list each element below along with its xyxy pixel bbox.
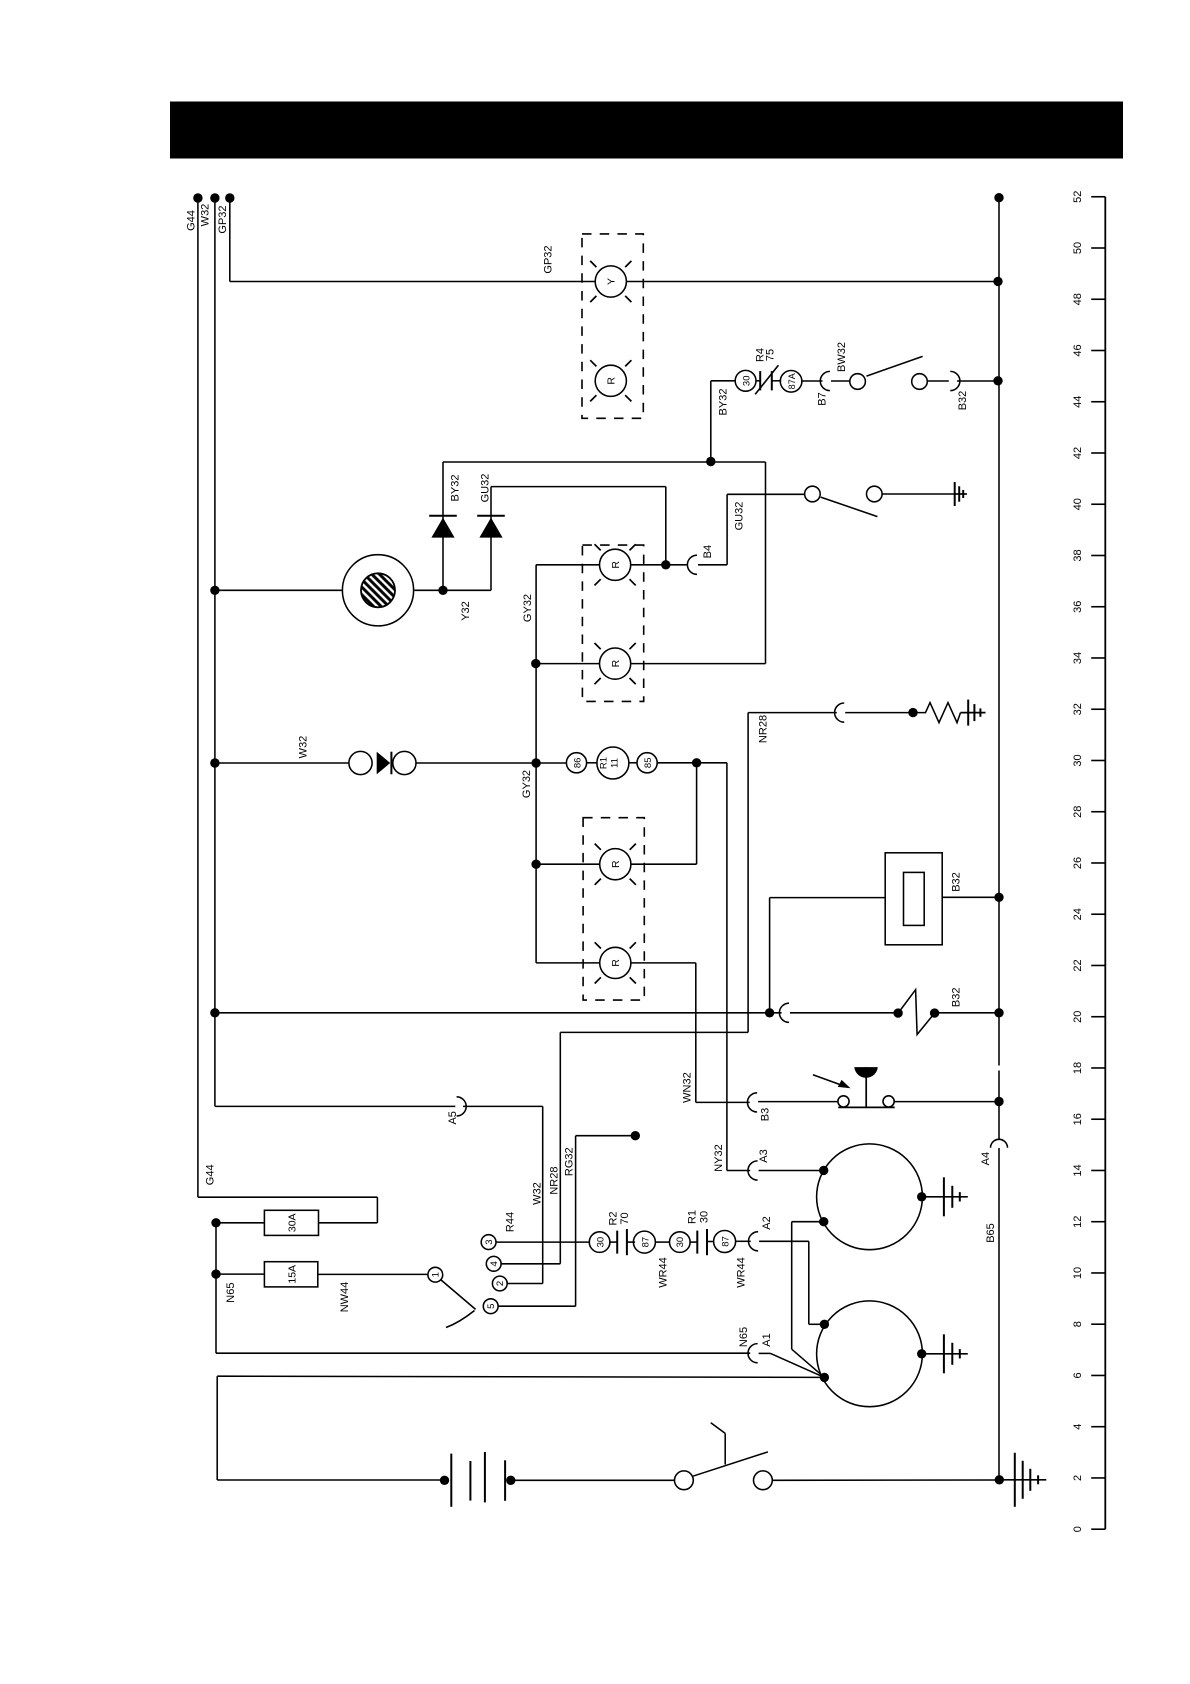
svg-text:NR28: NR28 (549, 1167, 561, 1195)
junction dot W32-horn (210, 586, 219, 595)
wire GU32 riser (726, 494, 728, 565)
svg-text:26: 26 (1072, 857, 1084, 869)
wire term2 to W32 (507, 1283, 543, 1285)
wire GU32 horizontal (491, 486, 666, 488)
wire cluster2 lower row (535, 663, 599, 665)
junction dot bus20 left (210, 1008, 219, 1017)
wire WN32 to B3 (696, 1101, 750, 1103)
svg-text:18: 18 (1072, 1062, 1084, 1074)
connector NR28 arc (835, 703, 845, 722)
svg-text:30: 30 (741, 376, 752, 387)
svg-text:48: 48 (1072, 293, 1084, 305)
switch BW32 throw (912, 374, 928, 390)
wire N65 vertical (215, 1223, 217, 1353)
connector A3 arc (748, 1161, 758, 1180)
svg-text:75: 75 (765, 349, 777, 361)
svg-text:B32: B32 (957, 391, 969, 411)
wire M1 riser diagonal (792, 1349, 825, 1377)
svg-text:R: R (610, 561, 622, 569)
svg-text:85: 85 (643, 758, 654, 769)
indicator lamp R cluster3 bottom (600, 947, 631, 978)
wire GP32 horizontal to lamp Y (230, 281, 595, 283)
wire B3 to horn button (758, 1101, 838, 1103)
junction dot lamp-GU32 (661, 560, 670, 569)
switch BW32 blade (867, 356, 923, 376)
svg-text:38: 38 (1072, 549, 1084, 561)
wire NR28 horizontal (748, 712, 837, 714)
diode GU32 (479, 518, 502, 538)
svg-text:15A: 15A (287, 1265, 299, 1284)
junction dot bus-relay row (993, 376, 1002, 385)
svg-text:30A: 30A (287, 1213, 299, 1232)
svg-text:86: 86 (572, 758, 583, 769)
wire GY32 top corner (536, 564, 600, 566)
svg-text:W32: W32 (200, 204, 212, 227)
wire right link drop (765, 462, 767, 664)
wire lamp Y to bus (626, 281, 998, 283)
svg-text:BY32: BY32 (450, 475, 462, 502)
svg-text:30: 30 (595, 1237, 606, 1248)
svg-text:50: 50 (1072, 242, 1084, 254)
ground battery (1014, 1453, 1016, 1507)
svg-text:22: 22 (1072, 959, 1084, 971)
wire bus20 mid (790, 1012, 898, 1014)
wire R1 30 stub (690, 1241, 697, 1243)
svg-text:GU32: GU32 (734, 502, 746, 531)
svg-text:40: 40 (1072, 498, 1084, 510)
wire B32 to bus (957, 380, 998, 382)
wire BY32 diode branch (442, 462, 444, 590)
connector A1 arc (748, 1344, 758, 1363)
svg-text:1: 1 (431, 1272, 442, 1277)
horn button pole (838, 1096, 849, 1107)
horn (342, 555, 413, 626)
terminal 87A of R4 (780, 371, 802, 393)
svg-text:R: R (610, 959, 622, 967)
motor M2 body (817, 1301, 923, 1407)
wire coil to 85 (629, 762, 637, 764)
svg-text:R1: R1 (599, 757, 610, 769)
wire lamp to B4 dot (631, 564, 687, 566)
connector B4 arc (687, 555, 697, 574)
wire GP32 vertical (229, 198, 231, 282)
wire GY32 to relay 86 (536, 762, 566, 764)
horn inner hatched disc (361, 573, 395, 607)
fusebox B32 inner (904, 872, 925, 925)
ignition switch arc (446, 1311, 475, 1328)
connector B7 arc (820, 371, 830, 390)
junction dot GY32 mid (531, 659, 540, 668)
svg-text:11: 11 (610, 758, 621, 768)
junction dot RG32 (631, 1131, 640, 1140)
wire bus20 right (935, 1012, 999, 1014)
svg-text:GY32: GY32 (521, 770, 533, 798)
junction dot bus-GP32 (993, 277, 1002, 286)
wire cluster3 bottom row (536, 962, 599, 964)
wire horn link (443, 589, 491, 591)
ground motor1 (943, 1177, 945, 1216)
main switch pole (675, 1471, 694, 1490)
junction dot bus-fusebox (994, 893, 1003, 902)
lamp cluster 2 dashed box (582, 545, 643, 701)
svg-text:3: 3 (484, 1239, 495, 1244)
wire horn to diode (414, 589, 443, 591)
wire switch to ground (882, 493, 955, 495)
wire W32 vertical lower (542, 1106, 544, 1283)
svg-text:30: 30 (675, 1237, 686, 1248)
junction dot M1 term right (917, 1192, 926, 1201)
svg-text:A5: A5 (447, 1111, 459, 1124)
wire term5 to RG32 (498, 1305, 575, 1307)
wire RG32 vertical (575, 1136, 577, 1307)
wire switch to connector B32 (927, 380, 949, 382)
switch GU32 blade (821, 497, 878, 516)
wire BY32 vertical (710, 381, 712, 461)
wire NR28 vertical upper (747, 713, 749, 1033)
svg-text:4: 4 (489, 1261, 500, 1266)
svg-text:WR44: WR44 (658, 1257, 670, 1288)
svg-text:N65: N65 (738, 1327, 750, 1347)
wire GU32 to switch (727, 493, 805, 495)
svg-text:W32: W32 (298, 736, 310, 759)
relay R1 terminal 86 (566, 753, 586, 773)
wire NR28 vertical lower (559, 1032, 561, 1263)
wire fuse30A left (216, 1222, 264, 1224)
wire M1 riser down (791, 1222, 793, 1350)
wire fuse15A left (216, 1273, 264, 1275)
wire breaker to 87A (772, 380, 781, 382)
wire 86 to coil (587, 762, 597, 764)
wire fusebox to bus (942, 896, 999, 898)
horn button cap (854, 1067, 878, 1078)
wire R1 87 stub (707, 1241, 714, 1243)
junction dot bus-B3 (994, 1097, 1003, 1106)
wire BY32 relay horizontal (711, 380, 736, 382)
wire NY32 to A3 (727, 1170, 750, 1172)
junction dot W32 row (210, 758, 219, 767)
indicator lamp Y (595, 266, 626, 297)
wire battery loop left (216, 1376, 218, 1480)
junction dot GP32 top (225, 193, 234, 202)
svg-text:Y: Y (606, 278, 618, 285)
junction dot N65 top (211, 1218, 220, 1227)
svg-text:B32: B32 (951, 872, 963, 892)
wire 85 to junction (657, 762, 696, 764)
svg-text:44: 44 (1072, 396, 1084, 408)
connector ring left (349, 751, 372, 774)
ground motor2 (943, 1334, 945, 1373)
svg-text:B65: B65 (985, 1223, 997, 1243)
connector ring right (393, 751, 416, 774)
svg-text:G44: G44 (205, 1164, 217, 1185)
svg-text:B32: B32 (951, 988, 963, 1008)
svg-text:70: 70 (619, 1212, 631, 1224)
wire lamp R2 right (631, 663, 766, 665)
svg-text:R44: R44 (505, 1212, 517, 1232)
svg-text:34: 34 (1072, 652, 1084, 664)
fuse 15A box (264, 1262, 317, 1287)
wire RG32 stub (576, 1135, 631, 1137)
svg-text:NY32: NY32 (713, 1144, 725, 1172)
svg-text:B7: B7 (817, 392, 829, 405)
svg-text:A2: A2 (761, 1216, 773, 1229)
ground resistor (967, 700, 969, 726)
svg-text:A4: A4 (980, 1152, 992, 1165)
ignition terminal 3 (481, 1235, 496, 1250)
junction dot battery left (440, 1476, 449, 1485)
wire R2 30 stub (610, 1241, 617, 1243)
svg-text:R: R (610, 659, 622, 667)
wire horn button to bus (894, 1101, 999, 1103)
fuse 30A box (264, 1210, 318, 1235)
svg-text:WN32: WN32 (682, 1072, 694, 1103)
fusebox B32 outer (885, 853, 942, 945)
relay R1 terminal 85 (637, 753, 657, 773)
ignition terminal 5 (483, 1299, 498, 1314)
junction dot bus20 bus (994, 1008, 1003, 1017)
wire arc to resistor (845, 712, 913, 714)
wire G44 jog right (198, 1196, 378, 1198)
ignition terminal 4 (486, 1256, 501, 1271)
wire lamp R4 right (631, 962, 696, 964)
junction dot GY32 lower (531, 860, 540, 869)
wire A5 horizontal (215, 1105, 455, 1107)
svg-text:GY32: GY32 (522, 594, 534, 622)
horn button bar (838, 1106, 895, 1108)
junction dot bus20 B32feed (765, 1008, 774, 1017)
lamp cluster 1 dashed box (582, 234, 643, 418)
wire N65 to A1 (216, 1352, 750, 1354)
svg-text:WR44: WR44 (736, 1257, 748, 1288)
relay coil R1 11 (597, 747, 629, 779)
wire right bus lower (998, 1148, 1000, 1480)
svg-text:42: 42 (1072, 447, 1084, 459)
junction dot G44 top (193, 193, 202, 202)
svg-text:GP32: GP32 (542, 245, 554, 273)
horn button throw (883, 1096, 894, 1107)
connector B32 arc (950, 371, 960, 390)
svg-text:20: 20 (1072, 1011, 1084, 1023)
wire bus20 left (215, 1012, 782, 1014)
wire A2 drop (808, 1241, 810, 1324)
wire fuse15A to switch (318, 1273, 428, 1275)
junction dot flash right (930, 1008, 939, 1017)
wire GU32 drop (665, 487, 667, 565)
svg-text:NW44: NW44 (339, 1282, 351, 1313)
junction dot M1 term lower (819, 1217, 828, 1226)
indicator lamp R cluster2 top (600, 549, 631, 580)
wire WN32 vertical (695, 963, 697, 1103)
svg-text:8: 8 (1072, 1321, 1084, 1327)
svg-text:30: 30 (699, 1211, 711, 1223)
wire A3 to motor1 (759, 1170, 824, 1172)
switch GU32 pole (805, 486, 821, 502)
junction dot M2 term lower (820, 1373, 829, 1382)
wire G44 to fuse (319, 1222, 378, 1224)
wire 30 to breaker (756, 380, 761, 382)
junction dot bus bottom (995, 1475, 1004, 1484)
svg-text:46: 46 (1072, 344, 1084, 356)
svg-text:GU32: GU32 (480, 474, 492, 503)
svg-text:BY32: BY32 (718, 389, 730, 416)
diode BY32 (431, 518, 454, 538)
motor M1 body (817, 1144, 923, 1250)
junction dot horn-BY32 (438, 586, 447, 595)
relay R2 terminal 87 (633, 1231, 655, 1253)
main switch blade (693, 1452, 768, 1476)
horn button arrow (813, 1075, 844, 1086)
horn button stem (865, 1067, 867, 1107)
wire G44 vertical (197, 198, 199, 1197)
wire battery loop bottom (217, 1479, 444, 1481)
wire GU32 diode branch (490, 487, 492, 591)
wire right bus middle (998, 1071, 1000, 1140)
svg-text:R2: R2 (608, 1211, 620, 1225)
main switch lever (711, 1423, 725, 1434)
svg-text:87A: 87A (787, 373, 797, 389)
resistor NR28 (913, 703, 961, 723)
junction dot bus top (994, 193, 1003, 202)
svg-text:36: 36 (1072, 601, 1084, 613)
diode W32 (377, 752, 391, 775)
wire G44 jog down (376, 1197, 378, 1223)
svg-text:32: 32 (1072, 703, 1084, 715)
wire B32 box feed vertical (769, 898, 771, 1013)
junction dot battery right (506, 1476, 515, 1485)
wire top link y462 (443, 461, 766, 463)
relay R1 terminal 87 (714, 1231, 736, 1253)
svg-text:N65: N65 (225, 1283, 237, 1303)
svg-text:NR28: NR28 (758, 715, 770, 743)
svg-text:2: 2 (495, 1281, 506, 1286)
lamp cluster 3 dashed box (583, 818, 644, 1000)
switch BW32 pole (850, 374, 866, 390)
wire battery to switch (511, 1479, 675, 1481)
wire W32 horizontal (215, 762, 349, 764)
junction dot M2 term upper (820, 1320, 829, 1329)
junction dot resistor (908, 708, 917, 717)
connector A5 arc (457, 1097, 467, 1116)
svg-text:5: 5 (486, 1304, 497, 1309)
junction dot GY32-W32 (531, 758, 540, 767)
relay R1 terminal 30 (670, 1232, 691, 1253)
wire 87A to connector B7 (801, 380, 823, 382)
svg-text:14: 14 (1072, 1164, 1084, 1176)
ruler scale 0-52 (1072, 191, 1105, 1533)
wire term3 to R2 (496, 1241, 589, 1243)
wire W32 feed vertical (214, 198, 216, 1106)
wire B4 to GU32 corner (698, 564, 727, 566)
svg-text:16: 16 (1072, 1113, 1084, 1125)
junction dot BY32-wire1 (706, 457, 715, 466)
wire right bus upper (998, 198, 1000, 1066)
junction dot N65 mid (211, 1269, 220, 1278)
wire B32 box feed horizontal (770, 897, 886, 899)
relay R2 contacts (616, 1231, 618, 1254)
svg-text:R: R (606, 377, 618, 385)
connector A2 arc (748, 1232, 758, 1251)
junction dot M2 term right (917, 1349, 926, 1358)
junction dot flash left (893, 1008, 902, 1017)
title bar (170, 102, 1123, 159)
svg-text:52: 52 (1072, 191, 1084, 203)
wire lamp R3 right (631, 863, 697, 865)
wire M1 lower to riser (792, 1221, 824, 1223)
wire R2 87 stub (627, 1241, 635, 1243)
wire battery loop top (217, 1376, 824, 1377)
junction dot W32 top (210, 193, 219, 202)
svg-text:12: 12 (1072, 1216, 1084, 1228)
svg-text:28: 28 (1072, 806, 1084, 818)
wire A2 right (759, 1240, 809, 1242)
connector arc bus20 (779, 1003, 789, 1022)
svg-text:A3: A3 (758, 1149, 770, 1162)
wire relay drop to lamp R3 (696, 763, 698, 864)
indicator lamp R cluster3 top (600, 849, 631, 880)
wire cluster3 top row (536, 863, 599, 865)
junction dot relay 85 (692, 758, 701, 767)
battery B1 (450, 1454, 452, 1507)
svg-text:GP32: GP32 (217, 205, 229, 233)
wire horn feed (215, 589, 342, 591)
svg-text:A1: A1 (761, 1333, 773, 1346)
wire NR28 jog left (560, 1031, 748, 1033)
indicator lamp R isolated (595, 365, 626, 396)
wire 87 to A2 (736, 1240, 751, 1242)
svg-text:30: 30 (1072, 754, 1084, 766)
wire A2 to motor2 (809, 1323, 825, 1325)
wire B7 to switch (831, 380, 850, 382)
svg-text:2: 2 (1072, 1475, 1084, 1481)
ground chassis small (954, 482, 956, 506)
terminal 30 of R4 (735, 370, 756, 391)
svg-text:G44: G44 (186, 210, 198, 231)
circuit breaker R4 75 contacts (759, 371, 761, 390)
svg-text:0: 0 (1072, 1526, 1084, 1532)
wire GY32 vertical (535, 565, 537, 963)
svg-text:87: 87 (721, 1236, 732, 1247)
indicator lamp R cluster2 bottom (600, 648, 631, 679)
ignition switch terminal 1 (428, 1267, 443, 1282)
wire A5 to corner (463, 1105, 543, 1107)
svg-text:Y32: Y32 (460, 601, 472, 621)
svg-text:10: 10 (1072, 1267, 1084, 1279)
connector B3 arc (747, 1093, 757, 1112)
junction dot M1 term A3 (819, 1166, 828, 1175)
wire switch to bus bottom (772, 1479, 999, 1481)
svg-text:W32: W32 (532, 1182, 544, 1205)
wire term4 to NR28 (501, 1263, 560, 1265)
wire A1 diagonal (759, 1352, 771, 1354)
fusible link B32 (898, 990, 935, 1035)
wire NY32 vertical (726, 763, 728, 1171)
relay R1 contacts (696, 1231, 698, 1254)
ignition terminal 2 (492, 1276, 507, 1291)
main switch throw (754, 1471, 773, 1490)
wire diode to GY32 (416, 762, 536, 764)
ignition switch blade (441, 1280, 476, 1310)
svg-text:6: 6 (1072, 1372, 1084, 1378)
svg-text:BW32: BW32 (836, 342, 848, 372)
svg-text:87: 87 (640, 1237, 651, 1248)
relay R2 terminal 30 (589, 1232, 610, 1253)
svg-text:24: 24 (1072, 908, 1084, 920)
svg-text:B3: B3 (760, 1108, 772, 1121)
svg-text:R1: R1 (687, 1210, 699, 1224)
svg-text:4: 4 (1072, 1424, 1084, 1430)
connector A4 arc on bus (991, 1139, 1008, 1148)
svg-text:R: R (610, 860, 622, 868)
